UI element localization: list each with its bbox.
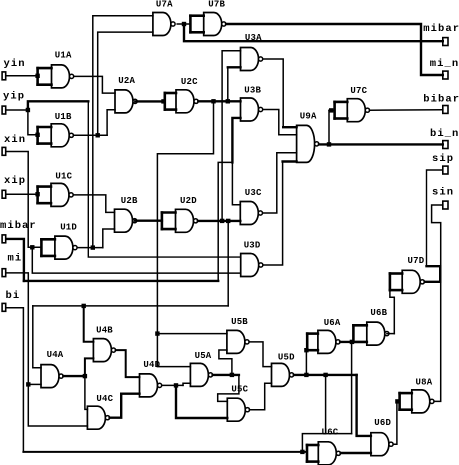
junction at U6A tie [304, 348, 308, 352]
nand gate U8A [400, 390, 434, 413]
nand gate U1A [38, 65, 74, 88]
junction at U1B tie [35, 133, 39, 137]
wire U9A out to bi_n port [319, 143, 443, 145]
junction yip node [26, 108, 30, 112]
wire U6B node down [351, 342, 353, 434]
wire feedback to U4B top input [84, 306, 94, 342]
wire U1A out to U2A top input [74, 76, 115, 93]
wire U5B out to U5D top input [249, 342, 271, 367]
svg-text:U2D: U2D [180, 196, 197, 206]
svg-text:U3C: U3C [245, 188, 262, 198]
svg-text:U5B: U5B [231, 317, 248, 327]
wire U1D out to U2B bottom input [103, 229, 115, 248]
junction U2C out B [226, 99, 230, 103]
nand gate U2C [165, 90, 198, 113]
svg-text:U1B: U1B [55, 112, 72, 122]
svg-text:mi: mi [8, 253, 23, 265]
nand gate U2D [162, 209, 198, 232]
wire U6C out to U6D bottom input [341, 452, 371, 454]
wire U5D out run [294, 374, 357, 376]
svg-text:U3D: U3D [244, 241, 261, 251]
svg-text:U9A: U9A [300, 112, 317, 122]
wire U6B out [387, 333, 394, 335]
wire U1B out to U2A bottom input [107, 110, 115, 136]
svg-text:U5C: U5C [231, 385, 248, 395]
nand gate U9A [297, 125, 319, 162]
svg-text:mi_n: mi_n [430, 58, 459, 70]
wire yip up branch [28, 101, 88, 110]
svg-text:xin: xin [4, 134, 26, 146]
svg-text:U7A: U7A [156, 0, 173, 9]
junction U5D out B [323, 373, 327, 377]
wire yip down branch to U1B [28, 110, 38, 135]
svg-text:sin: sin [432, 187, 454, 199]
wire U8A out to sin port [432, 205, 443, 401]
junction U7A out [182, 22, 186, 26]
wire bi down left side [6, 308, 23, 452]
nand gate U4A [41, 365, 63, 388]
wire U3B out to U9A pin2 [263, 110, 297, 135]
wire U1D out [77, 247, 103, 249]
wire U3C out to U9A pin3 [263, 153, 297, 213]
wire U5A out to U5C top input [218, 375, 239, 402]
nand gate U5A [190, 363, 212, 386]
wire U7D tie feed [390, 290, 394, 333]
svg-text:U6A: U6A [324, 318, 341, 328]
port sin [443, 201, 448, 209]
junction U5A out [230, 373, 234, 377]
wire to U5B top input [157, 333, 227, 335]
wire U1B out [73, 134, 107, 136]
wire U4D out to U5A bottom input [183, 383, 190, 385]
wire U5C out to U5D bottom input [250, 383, 272, 410]
svg-text:xip: xip [4, 175, 26, 187]
junction U5D out A [304, 373, 308, 377]
junction U1B out [96, 133, 100, 137]
port mibar [2, 235, 6, 243]
port xip [2, 190, 6, 198]
svg-text:U6C: U6C [322, 427, 339, 437]
port mibar_out [443, 38, 448, 46]
junction yin at U1A tie [35, 74, 39, 78]
svg-text:U1C: U1C [55, 172, 72, 182]
wire U4A out [63, 375, 85, 377]
nand gate U2B [115, 209, 137, 232]
nand gate U7C [335, 99, 370, 122]
port yin [2, 72, 6, 80]
nand gate U3B [241, 98, 263, 121]
nand gate U5B [227, 330, 249, 353]
junction at U1C tie [35, 192, 39, 196]
wire U1B out up to U7A bottom input [98, 32, 153, 135]
svg-text:U2A: U2A [118, 76, 135, 86]
port bibar [443, 106, 448, 114]
nand gate U7B [190, 13, 226, 36]
port mi_n [443, 71, 448, 79]
wire feedback down to U4A top input [33, 306, 41, 368]
wire mibar up right side [218, 162, 232, 281]
nand gate U4D [140, 374, 162, 397]
svg-text:U7B: U7B [208, 0, 225, 9]
svg-text:U6B: U6B [370, 308, 387, 318]
nand gate U1B [38, 124, 74, 147]
svg-text:mibar: mibar [423, 23, 459, 35]
junction xin node [30, 245, 34, 249]
nand gate U6C [307, 442, 341, 465]
port sip [443, 166, 448, 174]
wire U4C out to U4D bottom input [110, 394, 140, 418]
nand gate U3A [241, 48, 263, 71]
wire xin branch to U3D bottom input [32, 247, 240, 273]
wire bottom node up [302, 434, 351, 452]
port mi [2, 269, 6, 277]
nand gate U1C [38, 183, 74, 206]
svg-text:U1A: U1A [55, 50, 72, 60]
svg-text:U8A: U8A [416, 378, 433, 388]
junction feedback at U4B [82, 304, 86, 308]
svg-text:bi: bi [6, 290, 21, 302]
junction U1D out [91, 245, 95, 249]
svg-text:U6D: U6D [374, 418, 391, 428]
svg-text:yin: yin [4, 58, 26, 70]
svg-text:U2C: U2C [181, 77, 198, 87]
nand gate U7A [153, 13, 175, 36]
svg-text:U1D: U1D [60, 223, 77, 233]
wire U2D out node down to feedback line [227, 221, 229, 306]
wire into U7C tie [329, 109, 335, 111]
junction U4A out [83, 374, 87, 378]
nand gate U5D [272, 363, 294, 386]
nand gate U2A [115, 90, 137, 113]
junction mi at U4A [26, 382, 30, 386]
wire U4A out to U4C top input [85, 376, 88, 409]
svg-text:U7C: U7C [350, 86, 367, 96]
wire U2C node down [157, 101, 213, 366]
wire U2A out to U2C [135, 100, 165, 102]
wire mibar to U3C top input [232, 162, 240, 204]
nand gate U6A [307, 330, 340, 353]
wire mi to U4A bottom input [28, 383, 41, 385]
wire mibar down [7, 239, 24, 281]
wire U7D out [425, 266, 441, 282]
junction at U5B feed [155, 331, 159, 335]
svg-text:sip: sip [432, 153, 454, 165]
wire U4B out to U4D top input [116, 350, 140, 377]
svg-text:bi_n: bi_n [430, 128, 459, 140]
wire mi to U4C bottom input [28, 384, 87, 426]
wire U3A out to U9A pin1 [263, 59, 283, 127]
wire U2C out to U3B top input [198, 100, 240, 102]
junction at U6B tie [350, 340, 354, 344]
port yip [2, 106, 6, 114]
wire U2B out to U2D [135, 219, 162, 221]
wire U2D out to U3C bottom input [198, 220, 241, 222]
wire U5A out [213, 374, 239, 376]
svg-text:yip: yip [3, 90, 25, 102]
wire U6A out to U6B tie [340, 341, 353, 343]
wire U6D out to U8A [393, 401, 399, 444]
svg-text:U4B: U4B [96, 326, 113, 336]
junction at U8A tie [395, 399, 399, 403]
wire yin to U1A [6, 75, 37, 77]
wire U9A out up to U7C [328, 110, 330, 144]
nand gate U1D [41, 236, 77, 259]
nand gate U6D [371, 433, 393, 456]
wire sip to U7D out [427, 170, 443, 266]
wire mibar horizontal run [24, 280, 218, 282]
wire U3A top input from U2D out [222, 51, 240, 221]
wire U7C out to bibar port [370, 109, 443, 112]
junction U9A out [327, 142, 331, 146]
wire xin to U1D [6, 152, 41, 248]
nand gate U6B [353, 322, 389, 345]
svg-text:U3B: U3B [244, 86, 261, 96]
nand gate U4B [93, 339, 115, 362]
svg-text:U5D: U5D [278, 353, 295, 363]
wire U5A out to U5B bottom input [219, 350, 232, 375]
wire U4D out [162, 384, 183, 386]
port bi [2, 303, 6, 311]
wire U1D out up to U7A top input [93, 16, 153, 248]
svg-text:U7D: U7D [408, 256, 425, 266]
svg-text:U4C: U4C [96, 394, 113, 404]
junction at U7C tie [329, 108, 333, 112]
port xin [2, 147, 6, 155]
junction U2C out A [211, 99, 215, 103]
wire mi down left side [6, 273, 28, 385]
wire U7A out to U7B [177, 23, 190, 25]
wire xip to U1C [6, 193, 37, 195]
wire U1C out to U2B top input [73, 195, 114, 213]
wire mibar to U3B bottom input [232, 118, 240, 162]
wire U3D out to U9A pin4 [263, 162, 283, 266]
svg-text:U5A: U5A [195, 351, 212, 361]
wire U4D out to U5C bottom input [176, 385, 227, 418]
junction at U2C tie [161, 99, 165, 103]
wire U5D out to U6D top input [357, 375, 371, 436]
wire yip vertical down right side [88, 101, 240, 257]
nand gate U3D [241, 254, 263, 277]
junction bi bottom [300, 450, 304, 454]
svg-text:bibar: bibar [423, 93, 459, 105]
svg-text:U2B: U2B [121, 196, 138, 206]
port bi_n [443, 141, 448, 149]
nand gate U3C [240, 202, 262, 225]
junction U4D out [174, 383, 178, 387]
nand gate U4C [87, 406, 109, 429]
wire U6A tie feed from U5D out [305, 350, 307, 375]
wire U7A out to mibar port [184, 24, 443, 41]
wire feedback line y306 [33, 305, 228, 307]
junction U2D out B [226, 219, 230, 223]
junction U2D out A [220, 219, 224, 223]
wire U2C node up to U3A bottom input [227, 67, 229, 101]
wire bi bottom run to U6C [23, 451, 307, 453]
wire U5D node down [325, 375, 327, 434]
wire U7B out to mi_n port [226, 24, 443, 75]
svg-text:mibar: mibar [0, 220, 37, 232]
wire U4A out to U4B bottom input [85, 358, 94, 376]
svg-text:U4A: U4A [47, 350, 64, 360]
wire yip to node [6, 109, 28, 111]
nand gate U5C [227, 398, 249, 421]
nand gate U7D [390, 270, 425, 293]
